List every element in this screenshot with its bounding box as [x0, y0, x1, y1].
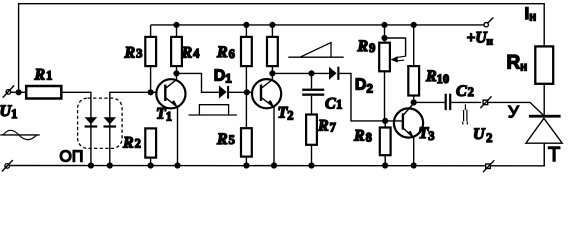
- wire input to R1: [11, 91, 27, 93]
- thyristor T: [526, 115, 562, 166]
- svg-text:R2: R2: [122, 135, 141, 152]
- pulse train mark U2: [463, 104, 468, 124]
- node R4 at supply rail: [174, 23, 179, 28]
- wire R1 to optocoupler: [62, 92, 91, 165]
- diode LED left of optocoupler: [85, 117, 98, 127]
- resistor R1: [26, 86, 61, 99]
- svg-text:Т: Т: [548, 144, 560, 166]
- terminal input bottom: [2, 160, 13, 171]
- resistor R5: [241, 92, 252, 165]
- wire bottom rail: [10, 143, 545, 166]
- terminal input top: [3, 85, 15, 97]
- svg-text:C1: C1: [325, 96, 342, 113]
- diode photodiode right of optocoupler: [104, 117, 117, 127]
- load resistor Rn: [535, 46, 553, 83]
- node C1 junction: [309, 71, 314, 76]
- wire gate to thyristor: [488, 102, 544, 115]
- terminal +Up: [484, 18, 493, 27]
- node R10 at supply rail: [411, 23, 416, 28]
- node R9 wiper tap: [382, 36, 387, 41]
- node junction at R1 left: [16, 90, 21, 95]
- svg-text:R9: R9: [357, 38, 376, 55]
- node T1 base junction: [148, 90, 153, 95]
- capacitor C2: [445, 94, 482, 110]
- node opto right at bottom rail: [107, 163, 112, 168]
- node T1 collector junction: [174, 71, 179, 76]
- svg-text:R5: R5: [216, 131, 235, 148]
- resistor R4: [171, 25, 182, 74]
- node T2 emitter at bottom rail: [272, 163, 277, 168]
- terminal gate wire: [480, 96, 491, 108]
- node unlabeled resistor at supply rail: [270, 23, 275, 28]
- node R7 at bottom rail: [309, 163, 314, 168]
- wire T1 collector to D1: [177, 73, 219, 92]
- svg-text:R4: R4: [181, 45, 201, 62]
- wire T2 collector to D2: [272, 72, 329, 74]
- node opto left at bottom rail: [89, 163, 94, 168]
- svg-text:R3: R3: [124, 45, 143, 62]
- transistor T1: [156, 73, 185, 165]
- wire supply rail +Up: [151, 24, 484, 26]
- svg-text:У: У: [508, 103, 519, 122]
- resistor R10: [408, 25, 419, 103]
- node R2 at bottom rail: [148, 163, 153, 168]
- node T3 collector junction: [411, 100, 416, 105]
- transistor T2: [252, 73, 281, 165]
- svg-text:ОП: ОП: [59, 149, 83, 166]
- potentiometer R9: [379, 25, 405, 121]
- node T2 collector junction: [270, 71, 275, 76]
- wire top rail: [19, 4, 545, 93]
- node R6 at supply rail: [244, 23, 249, 28]
- diode D1: [219, 85, 252, 98]
- terminal cathode wire: [483, 160, 494, 172]
- wire optocoupler to T1 base: [110, 92, 156, 165]
- svg-text:R1: R1: [34, 67, 53, 84]
- resistor R2: [145, 128, 156, 165]
- node T3 emitter at bottom rail: [411, 163, 416, 168]
- optocoupler dashed box OP: [78, 98, 123, 148]
- resistor R6: [241, 25, 252, 92]
- pulse waveform icon: [189, 105, 238, 115]
- node R8 at bottom rail: [383, 163, 388, 168]
- svg-text:R6: R6: [216, 44, 235, 61]
- node T1 emitter at bottom rail: [175, 163, 180, 168]
- diode D2: [329, 67, 385, 121]
- svg-text:R8: R8: [353, 127, 372, 144]
- node R9 at supply rail: [382, 23, 387, 28]
- sine wave icon: [0, 130, 39, 139]
- node T3 base junction: [383, 119, 388, 124]
- ramp waveform icon: [288, 43, 343, 58]
- wire Rn to thyristor: [543, 84, 545, 115]
- capacitor C1: [302, 73, 324, 114]
- node R5 at bottom rail: [244, 163, 249, 168]
- resistor R3: [145, 25, 156, 92]
- resistor R8: [380, 121, 391, 166]
- resistor collector of T2 (unlabeled): [267, 25, 278, 74]
- resistor R7: [306, 115, 317, 166]
- wire T3 collector to C2: [414, 101, 445, 103]
- svg-text:R7: R7: [317, 118, 336, 135]
- svg-text:C2: C2: [456, 83, 474, 100]
- transistor T3: [385, 102, 423, 165]
- node T2 base junction: [244, 90, 249, 95]
